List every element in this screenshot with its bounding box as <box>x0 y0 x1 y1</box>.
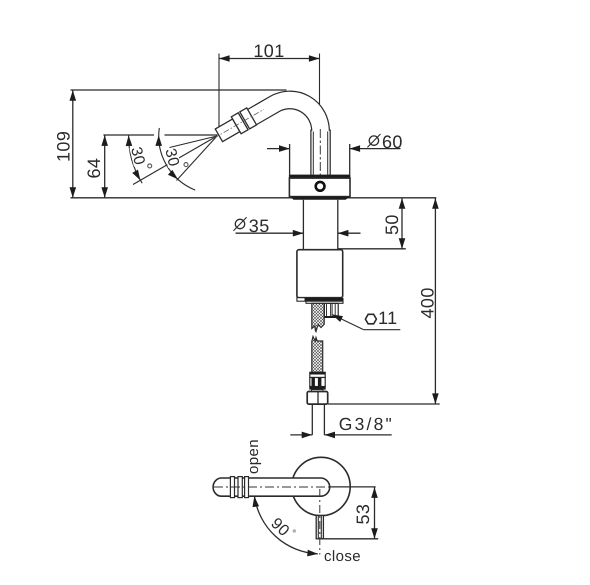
svg-text:35: 35 <box>249 216 270 236</box>
svg-text:101: 101 <box>253 41 284 61</box>
svg-text:close: close <box>324 548 361 565</box>
svg-text:64: 64 <box>84 158 104 179</box>
svg-text:60: 60 <box>382 132 403 152</box>
svg-text:open: open <box>245 439 262 474</box>
svg-text:400: 400 <box>417 287 437 318</box>
svg-text:53: 53 <box>353 504 373 525</box>
svg-text:11: 11 <box>378 308 398 328</box>
svg-text:G3/8": G3/8" <box>339 414 394 434</box>
svg-text:50: 50 <box>382 214 402 235</box>
svg-text:109: 109 <box>54 131 74 162</box>
